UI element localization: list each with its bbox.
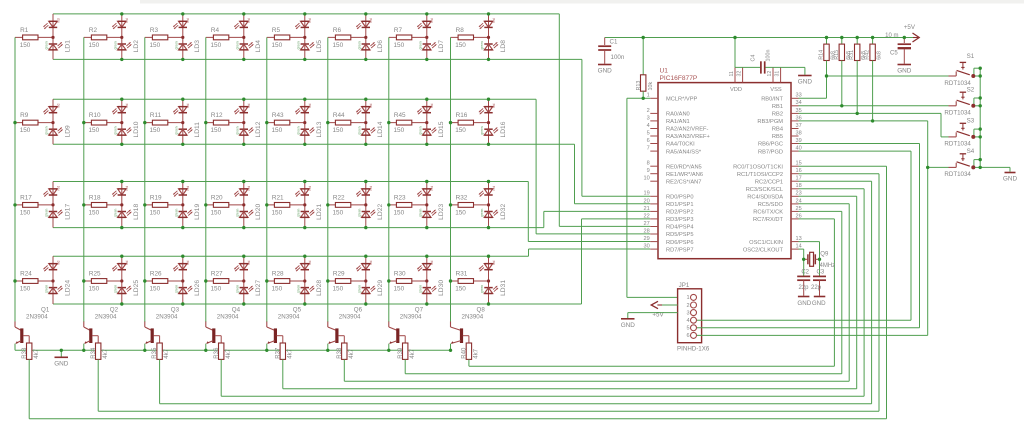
svg-text:R29: R29 (333, 270, 345, 277)
svg-text:LD10: LD10 (133, 121, 140, 137)
svg-text:LD27: LD27 (255, 280, 262, 296)
svg-text:150: 150 (20, 210, 31, 217)
svg-text:R25: R25 (89, 270, 101, 277)
svg-text:150: 150 (455, 42, 466, 49)
svg-text:150: 150 (20, 286, 31, 293)
svg-text:red: red (186, 186, 190, 191)
svg-text:18: 18 (796, 183, 802, 189)
svg-text:GND: GND (797, 300, 811, 307)
svg-text:32: 32 (736, 71, 742, 77)
svg-text:red: red (430, 103, 434, 108)
svg-text:S1: S1 (967, 53, 975, 60)
svg-text:6k8: 6k8 (877, 51, 883, 60)
svg-text:RC3/SCK/SCL: RC3/SCK/SCL (746, 187, 783, 193)
svg-text:red: red (125, 260, 129, 265)
svg-text:RB4: RB4 (772, 127, 783, 133)
svg-text:150: 150 (333, 286, 344, 293)
svg-text:red: red (56, 260, 60, 265)
svg-text:R27: R27 (211, 270, 223, 277)
svg-text:LD31: LD31 (500, 280, 507, 296)
svg-text:RD3/PSP3: RD3/PSP3 (666, 217, 694, 223)
svg-text:11: 11 (729, 71, 735, 76)
svg-text:29: 29 (643, 236, 649, 242)
svg-text:LD5: LD5 (316, 40, 323, 53)
svg-text:LD24: LD24 (64, 280, 71, 296)
svg-text:RA4/T0CKI: RA4/T0CKI (666, 142, 695, 148)
svg-text:RC7/RX/DT: RC7/RX/DT (753, 217, 784, 223)
svg-text:red: red (430, 18, 434, 23)
svg-text:10: 10 (643, 176, 649, 182)
svg-text:RA0/AN0: RA0/AN0 (666, 112, 690, 118)
svg-text:green: green (174, 126, 178, 134)
svg-text:red: red (56, 186, 60, 191)
svg-text:LD6: LD6 (377, 40, 384, 53)
svg-text:150: 150 (20, 42, 31, 49)
svg-text:red: red (247, 18, 251, 23)
svg-text:red: red (125, 103, 129, 108)
svg-text:LD9: LD9 (64, 125, 71, 138)
svg-text:RB7/PGD: RB7/PGD (758, 149, 783, 155)
svg-text:C1: C1 (610, 39, 618, 46)
svg-text:red: red (125, 186, 129, 191)
svg-text:VSS: VSS (770, 87, 782, 93)
svg-text:U1: U1 (660, 67, 669, 74)
svg-text:red: red (308, 186, 312, 191)
svg-text:RB5: RB5 (772, 134, 783, 140)
svg-text:green: green (235, 41, 239, 49)
svg-text:150: 150 (89, 286, 100, 293)
svg-text:RE0/RD*/AN5: RE0/RD*/AN5 (666, 164, 702, 170)
svg-text:red: red (492, 18, 496, 23)
svg-text:LD16: LD16 (500, 121, 507, 137)
svg-text:RB1: RB1 (772, 104, 783, 110)
svg-text:red: red (186, 18, 190, 23)
svg-text:GND: GND (897, 68, 912, 75)
svg-text:C3: C3 (817, 269, 825, 275)
svg-text:2N3904: 2N3904 (462, 314, 484, 321)
svg-text:green: green (480, 41, 484, 49)
svg-text:green: green (113, 209, 117, 217)
svg-text:RB3/PGM: RB3/PGM (757, 119, 783, 125)
svg-text:green: green (357, 41, 361, 49)
svg-text:RDT1034: RDT1034 (944, 110, 971, 117)
svg-text:150: 150 (150, 42, 161, 49)
svg-text:RD4/PSP4: RD4/PSP4 (666, 225, 694, 231)
svg-text:red: red (247, 103, 251, 108)
svg-text:R10: R10 (89, 112, 101, 119)
svg-text:2N3904: 2N3904 (400, 314, 422, 321)
svg-text:green: green (296, 209, 300, 217)
svg-text:red: red (430, 260, 434, 265)
svg-text:4MHz: 4MHz (820, 263, 836, 269)
svg-text:2N3904: 2N3904 (278, 314, 300, 321)
svg-text:Q8: Q8 (477, 306, 486, 313)
svg-text:Q3: Q3 (171, 306, 180, 313)
svg-text:33: 33 (796, 93, 802, 99)
svg-text:JP1: JP1 (679, 282, 690, 289)
svg-text:OSC1/CLKIN: OSC1/CLKIN (749, 240, 783, 246)
svg-text:R1: R1 (20, 27, 29, 34)
svg-text:green: green (357, 126, 361, 134)
svg-text:green: green (113, 41, 117, 49)
svg-text:RD2/PSP2: RD2/PSP2 (666, 210, 694, 216)
svg-text:red: red (247, 260, 251, 265)
svg-text:150: 150 (333, 210, 344, 217)
svg-text:green: green (418, 126, 422, 134)
svg-text:4k7: 4k7 (287, 348, 293, 358)
svg-text:150: 150 (211, 127, 222, 134)
svg-text:6: 6 (686, 333, 689, 339)
svg-text:red: red (369, 260, 373, 265)
svg-text:LD25: LD25 (133, 280, 140, 296)
svg-text:R21: R21 (272, 194, 284, 201)
svg-text:green: green (418, 41, 422, 49)
svg-text:RC2/CCP1: RC2/CCP1 (755, 179, 783, 185)
svg-text:GND: GND (54, 361, 69, 368)
svg-text:RDT1034: RDT1034 (944, 171, 971, 178)
svg-text:R33: R33 (22, 347, 28, 359)
svg-text:GND: GND (798, 79, 813, 86)
svg-text:red: red (56, 103, 60, 108)
svg-text:RB0/INT: RB0/INT (761, 97, 783, 103)
svg-text:RC0/T1OSO/T1CKI: RC0/T1OSO/T1CKI (733, 164, 783, 170)
svg-text:20: 20 (643, 198, 649, 204)
svg-text:LD3: LD3 (194, 40, 201, 53)
svg-text:150: 150 (394, 127, 405, 134)
svg-text:RD1/PSP1: RD1/PSP1 (666, 202, 694, 208)
svg-text:34: 34 (796, 100, 802, 106)
svg-text:19: 19 (643, 191, 649, 197)
svg-text:31: 31 (774, 71, 780, 77)
svg-text:2N3904: 2N3904 (26, 314, 48, 321)
svg-text:GND: GND (598, 68, 613, 75)
svg-text:4k7: 4k7 (164, 348, 170, 358)
svg-text:R26: R26 (150, 270, 162, 277)
svg-text:R23: R23 (394, 194, 406, 201)
svg-text:LD2: LD2 (133, 40, 140, 53)
svg-text:GND: GND (1003, 176, 1018, 183)
svg-text:R39: R39 (398, 347, 404, 359)
svg-text:1: 1 (647, 93, 650, 99)
svg-text:R4: R4 (211, 27, 220, 34)
svg-text:S3: S3 (967, 117, 975, 124)
svg-text:RD7/PSP7: RD7/PSP7 (666, 247, 694, 253)
svg-text:10k: 10k (648, 82, 654, 91)
svg-text:red: red (125, 18, 129, 23)
svg-text:R31: R31 (456, 270, 468, 277)
svg-text:17: 17 (796, 176, 802, 182)
svg-text:100n: 100n (765, 50, 771, 62)
svg-text:R17: R17 (20, 194, 32, 201)
svg-text:green: green (235, 126, 239, 134)
svg-text:S4: S4 (967, 148, 975, 155)
svg-text:150: 150 (455, 286, 466, 293)
svg-text:green: green (357, 209, 361, 217)
svg-text:R7: R7 (394, 27, 403, 34)
svg-text:R22: R22 (333, 194, 345, 201)
svg-text:150: 150 (272, 286, 283, 293)
svg-text:150: 150 (455, 210, 466, 217)
svg-text:22p: 22p (811, 285, 822, 291)
svg-text:RC6/TX/CK: RC6/TX/CK (753, 210, 783, 216)
svg-text:12: 12 (767, 71, 773, 77)
svg-text:1: 1 (686, 295, 689, 301)
svg-text:3: 3 (686, 310, 689, 316)
svg-text:Q7: Q7 (415, 306, 424, 313)
svg-text:6: 6 (647, 138, 650, 144)
svg-text:VDD: VDD (730, 87, 742, 93)
svg-text:4k7: 4k7 (349, 348, 355, 358)
svg-text:150: 150 (272, 210, 283, 217)
svg-text:LD32: LD32 (500, 204, 507, 220)
svg-text:R19: R19 (150, 194, 162, 201)
svg-text:150: 150 (89, 210, 100, 217)
svg-text:150: 150 (20, 127, 31, 134)
svg-text:R13: R13 (636, 81, 642, 91)
svg-text:red: red (247, 186, 251, 191)
svg-text:LD13: LD13 (316, 121, 323, 137)
svg-text:LD11: LD11 (194, 122, 201, 138)
svg-text:R9: R9 (20, 112, 29, 119)
svg-text:3: 3 (647, 115, 650, 121)
svg-text:LD29: LD29 (377, 280, 384, 296)
svg-text:150: 150 (394, 210, 405, 217)
svg-text:R6: R6 (333, 27, 342, 34)
svg-text:LD18: LD18 (133, 204, 140, 220)
svg-text:RC5/SDO: RC5/SDO (758, 202, 784, 208)
svg-text:R30: R30 (394, 270, 406, 277)
svg-text:OSC2/CLKOUT: OSC2/CLKOUT (743, 247, 784, 253)
svg-text:22: 22 (643, 213, 649, 219)
svg-text:green: green (418, 209, 422, 217)
svg-text:R35: R35 (152, 347, 158, 359)
svg-text:red: red (492, 186, 496, 191)
svg-text:4k7: 4k7 (34, 348, 40, 358)
svg-text:+5V: +5V (904, 24, 916, 31)
svg-text:C5: C5 (890, 50, 898, 56)
svg-text:red: red (369, 103, 373, 108)
svg-text:4: 4 (686, 318, 689, 324)
svg-text:9: 9 (647, 168, 650, 174)
svg-text:150: 150 (150, 286, 161, 293)
svg-text:R37: R37 (275, 347, 281, 359)
svg-text:R32: R32 (456, 194, 468, 201)
svg-text:red: red (430, 186, 434, 191)
svg-text:R45: R45 (394, 112, 406, 119)
svg-text:RC4/SDI/SDA: RC4/SDI/SDA (747, 195, 783, 201)
svg-text:150: 150 (211, 286, 222, 293)
svg-text:RA1/AN1: RA1/AN1 (666, 119, 690, 125)
svg-text:R38: R38 (337, 347, 343, 359)
svg-text:RD5/PSP5: RD5/PSP5 (666, 232, 694, 238)
svg-text:PIC16F877P: PIC16F877P (660, 75, 698, 82)
svg-text:green: green (174, 41, 178, 49)
svg-text:green: green (296, 41, 300, 49)
svg-text:LD20: LD20 (255, 204, 262, 220)
svg-text:R14: R14 (819, 50, 825, 60)
svg-text:R43: R43 (272, 112, 284, 119)
svg-text:red: red (56, 18, 60, 23)
svg-text:2N3904: 2N3904 (339, 314, 361, 321)
svg-text:4k7: 4k7 (410, 348, 416, 358)
svg-text:2: 2 (647, 108, 650, 114)
svg-text:red: red (186, 260, 190, 265)
svg-text:S2: S2 (967, 86, 975, 93)
svg-text:28: 28 (643, 228, 649, 234)
svg-text:R31: R31 (849, 50, 855, 60)
svg-text:green: green (174, 285, 178, 293)
svg-text:150: 150 (211, 210, 222, 217)
svg-text:4k7: 4k7 (103, 348, 109, 358)
svg-text:21: 21 (643, 206, 649, 212)
svg-text:green: green (174, 209, 178, 217)
svg-text:23: 23 (796, 191, 802, 197)
svg-text:green: green (296, 126, 300, 134)
svg-text:green: green (296, 285, 300, 293)
svg-text:2N3904: 2N3904 (95, 314, 117, 321)
svg-text:red: red (308, 260, 312, 265)
svg-text:green: green (113, 126, 117, 134)
svg-text:Q1: Q1 (41, 306, 50, 313)
svg-text:150: 150 (272, 42, 283, 49)
svg-text:Q5: Q5 (293, 306, 302, 313)
svg-text:R16: R16 (456, 112, 468, 119)
svg-text:R20: R20 (211, 194, 223, 201)
svg-text:LD23: LD23 (438, 204, 445, 220)
svg-text:red: red (186, 103, 190, 108)
svg-text:150: 150 (455, 127, 466, 134)
svg-text:R3: R3 (150, 27, 159, 34)
svg-text:2N3904: 2N3904 (156, 314, 178, 321)
svg-text:green: green (480, 209, 484, 217)
svg-text:R8: R8 (456, 27, 465, 34)
svg-text:GND: GND (812, 300, 826, 307)
svg-text:RB6/PGC: RB6/PGC (758, 142, 783, 148)
svg-text:R15: R15 (834, 50, 840, 60)
svg-text:7: 7 (647, 146, 650, 152)
svg-text:4k7: 4k7 (474, 348, 480, 358)
svg-text:R28: R28 (272, 270, 284, 277)
svg-text:5: 5 (647, 130, 650, 136)
svg-text:RD0/PSP0: RD0/PSP0 (666, 195, 694, 201)
svg-text:LD8: LD8 (500, 40, 507, 53)
svg-text:Q6: Q6 (354, 306, 363, 313)
svg-text:150: 150 (150, 210, 161, 217)
svg-text:LD1: LD1 (64, 40, 71, 53)
svg-text:PINHD-1X6: PINHD-1X6 (677, 346, 710, 353)
svg-text:R40: R40 (462, 347, 468, 359)
svg-text:8: 8 (647, 161, 650, 167)
svg-text:LD4: LD4 (255, 40, 262, 53)
svg-text:30: 30 (643, 244, 649, 250)
svg-text:green: green (45, 41, 49, 49)
svg-text:25: 25 (796, 206, 802, 212)
svg-text:green: green (418, 285, 422, 293)
svg-text:RC1/T1OSI/CCP2: RC1/T1OSI/CCP2 (737, 172, 783, 178)
svg-text:RA3/AN3/VREF+: RA3/AN3/VREF+ (666, 134, 710, 140)
svg-text:5: 5 (686, 326, 689, 332)
svg-text:R44: R44 (333, 112, 345, 119)
svg-text:green: green (45, 209, 49, 217)
svg-text:RA5/AN4/SS*: RA5/AN4/SS* (666, 149, 702, 155)
svg-text:Q4: Q4 (232, 306, 241, 313)
svg-text:R36: R36 (214, 347, 220, 359)
svg-text:GND: GND (621, 322, 636, 329)
svg-text:R5: R5 (272, 27, 281, 34)
svg-text:RE2/CS*/AN7: RE2/CS*/AN7 (666, 179, 701, 185)
svg-text:green: green (113, 285, 117, 293)
svg-text:green: green (480, 285, 484, 293)
svg-text:27: 27 (643, 221, 649, 227)
svg-text:red: red (369, 186, 373, 191)
svg-text:R18: R18 (89, 194, 101, 201)
svg-text:R42: R42 (865, 50, 871, 60)
svg-text:R34: R34 (91, 347, 97, 359)
svg-text:C2: C2 (801, 269, 809, 275)
svg-text:150: 150 (272, 127, 283, 134)
svg-text:150: 150 (333, 42, 344, 49)
svg-text:150: 150 (211, 42, 222, 49)
svg-text:red: red (369, 18, 373, 23)
svg-text:38: 38 (796, 130, 802, 136)
svg-text:LD21: LD21 (316, 204, 323, 220)
svg-text:red: red (308, 18, 312, 23)
svg-text:LD7: LD7 (438, 40, 445, 53)
svg-text:LD15: LD15 (438, 121, 445, 137)
svg-text:100n: 100n (611, 54, 625, 61)
svg-text:green: green (45, 285, 49, 293)
svg-text:26: 26 (796, 213, 802, 219)
svg-text:RA2/AN2/VREF-: RA2/AN2/VREF- (666, 127, 708, 133)
svg-text:2N3904: 2N3904 (217, 314, 239, 321)
svg-text:10 m: 10 m (885, 33, 898, 39)
svg-text:150: 150 (89, 127, 100, 134)
svg-text:24: 24 (796, 198, 802, 204)
svg-text:LD22: LD22 (377, 204, 384, 220)
svg-text:green: green (480, 126, 484, 134)
svg-text:150: 150 (89, 42, 100, 49)
svg-text:red: red (308, 103, 312, 108)
svg-text:green: green (235, 209, 239, 217)
svg-text:R2: R2 (89, 27, 98, 34)
svg-text:22p: 22p (798, 285, 809, 291)
svg-text:150: 150 (394, 286, 405, 293)
svg-text:red: red (492, 103, 496, 108)
svg-text:150: 150 (333, 127, 344, 134)
svg-text:R12: R12 (211, 112, 223, 119)
svg-text:LD12: LD12 (255, 121, 262, 137)
svg-text:2: 2 (686, 303, 689, 309)
svg-text:RE1/WR*/AN6: RE1/WR*/AN6 (666, 172, 703, 178)
svg-text:MCLR*/VPP: MCLR*/VPP (666, 97, 697, 103)
svg-text:37: 37 (796, 123, 802, 129)
svg-text:150: 150 (150, 127, 161, 134)
svg-text:RD6/PSP6: RD6/PSP6 (666, 240, 694, 246)
svg-text:green: green (235, 285, 239, 293)
svg-text:4: 4 (647, 123, 650, 129)
svg-text:15: 15 (796, 161, 802, 167)
svg-text:C4: C4 (751, 55, 757, 62)
svg-text:green: green (45, 126, 49, 134)
svg-text:green: green (357, 285, 361, 293)
svg-text:4k7: 4k7 (226, 348, 232, 358)
svg-text:Q9: Q9 (820, 252, 829, 258)
svg-text:LD17: LD17 (64, 204, 71, 220)
svg-text:LD28: LD28 (316, 280, 323, 296)
svg-text:LD30: LD30 (438, 280, 445, 296)
svg-text:LD19: LD19 (194, 204, 201, 220)
svg-text:16: 16 (796, 168, 802, 174)
